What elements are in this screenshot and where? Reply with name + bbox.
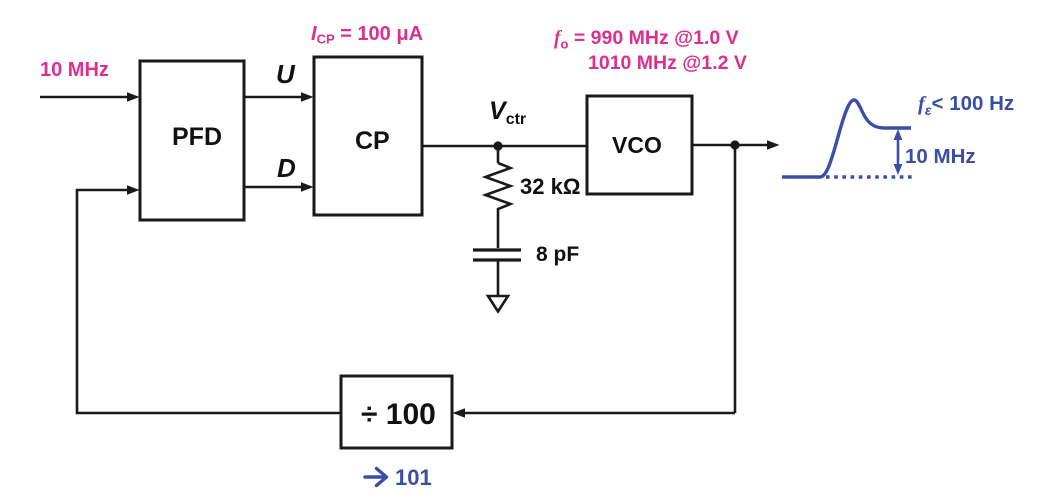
- capacitor C1 8 pF: [473, 250, 521, 296]
- svg-text:1010 MHz @1.2 V: 1010 MHz @1.2 V: [588, 52, 747, 74]
- wire U: PFD to CP: [244, 92, 314, 101]
- wire: output down to feedback rail: [734, 145, 737, 413]
- block divider 100: [341, 376, 452, 448]
- wire: VCO output with arrow: [692, 140, 780, 149]
- resistor R1 32 kOhm: [486, 146, 511, 248]
- svg-text:CP: CP: [355, 127, 390, 155]
- svg-text:10 MHz: 10 MHz: [40, 59, 109, 81]
- svg-text:8 pF: 8 pF: [536, 243, 579, 266]
- svg-text:32 kΩ: 32 kΩ: [520, 174, 580, 199]
- ground symbol: [488, 296, 508, 312]
- waveform: VCO settling response (blue): [782, 100, 911, 177]
- svg-text:÷ 100: ÷ 100: [361, 398, 436, 431]
- node: output junction dot: [730, 140, 739, 149]
- svg-text:PFD: PFD: [172, 123, 222, 151]
- annotation: 10 MHz step double arrow: [894, 129, 903, 175]
- wire: feedback rail into divider: [453, 408, 736, 417]
- wire: divider output back to PFD: [77, 185, 341, 413]
- node: Vctr junction dot: [493, 141, 502, 150]
- svg-text:VCO: VCO: [612, 132, 662, 158]
- block CP: [314, 57, 422, 215]
- block VCO: [587, 96, 692, 194]
- svg-text:fε< 100 Hz: fε< 100 Hz: [918, 92, 1014, 118]
- wire D: PFD to CP: [244, 182, 314, 191]
- svg-text:101: 101: [395, 465, 432, 490]
- wire: reference input into PFD: [40, 92, 140, 101]
- waveform baseline: dotted reference line: [826, 175, 916, 178]
- svg-text:10 MHz: 10 MHz: [905, 145, 976, 168]
- wire: CP output to VCO: [422, 145, 587, 148]
- label: -> 101 (blue): [365, 465, 432, 490]
- svg-text:D: D: [277, 153, 296, 183]
- svg-text:fo = 990 MHz @1.0 V: fo = 990 MHz @1.0 V: [554, 27, 739, 52]
- block PFD: [140, 61, 244, 220]
- svg-text:U: U: [276, 59, 296, 89]
